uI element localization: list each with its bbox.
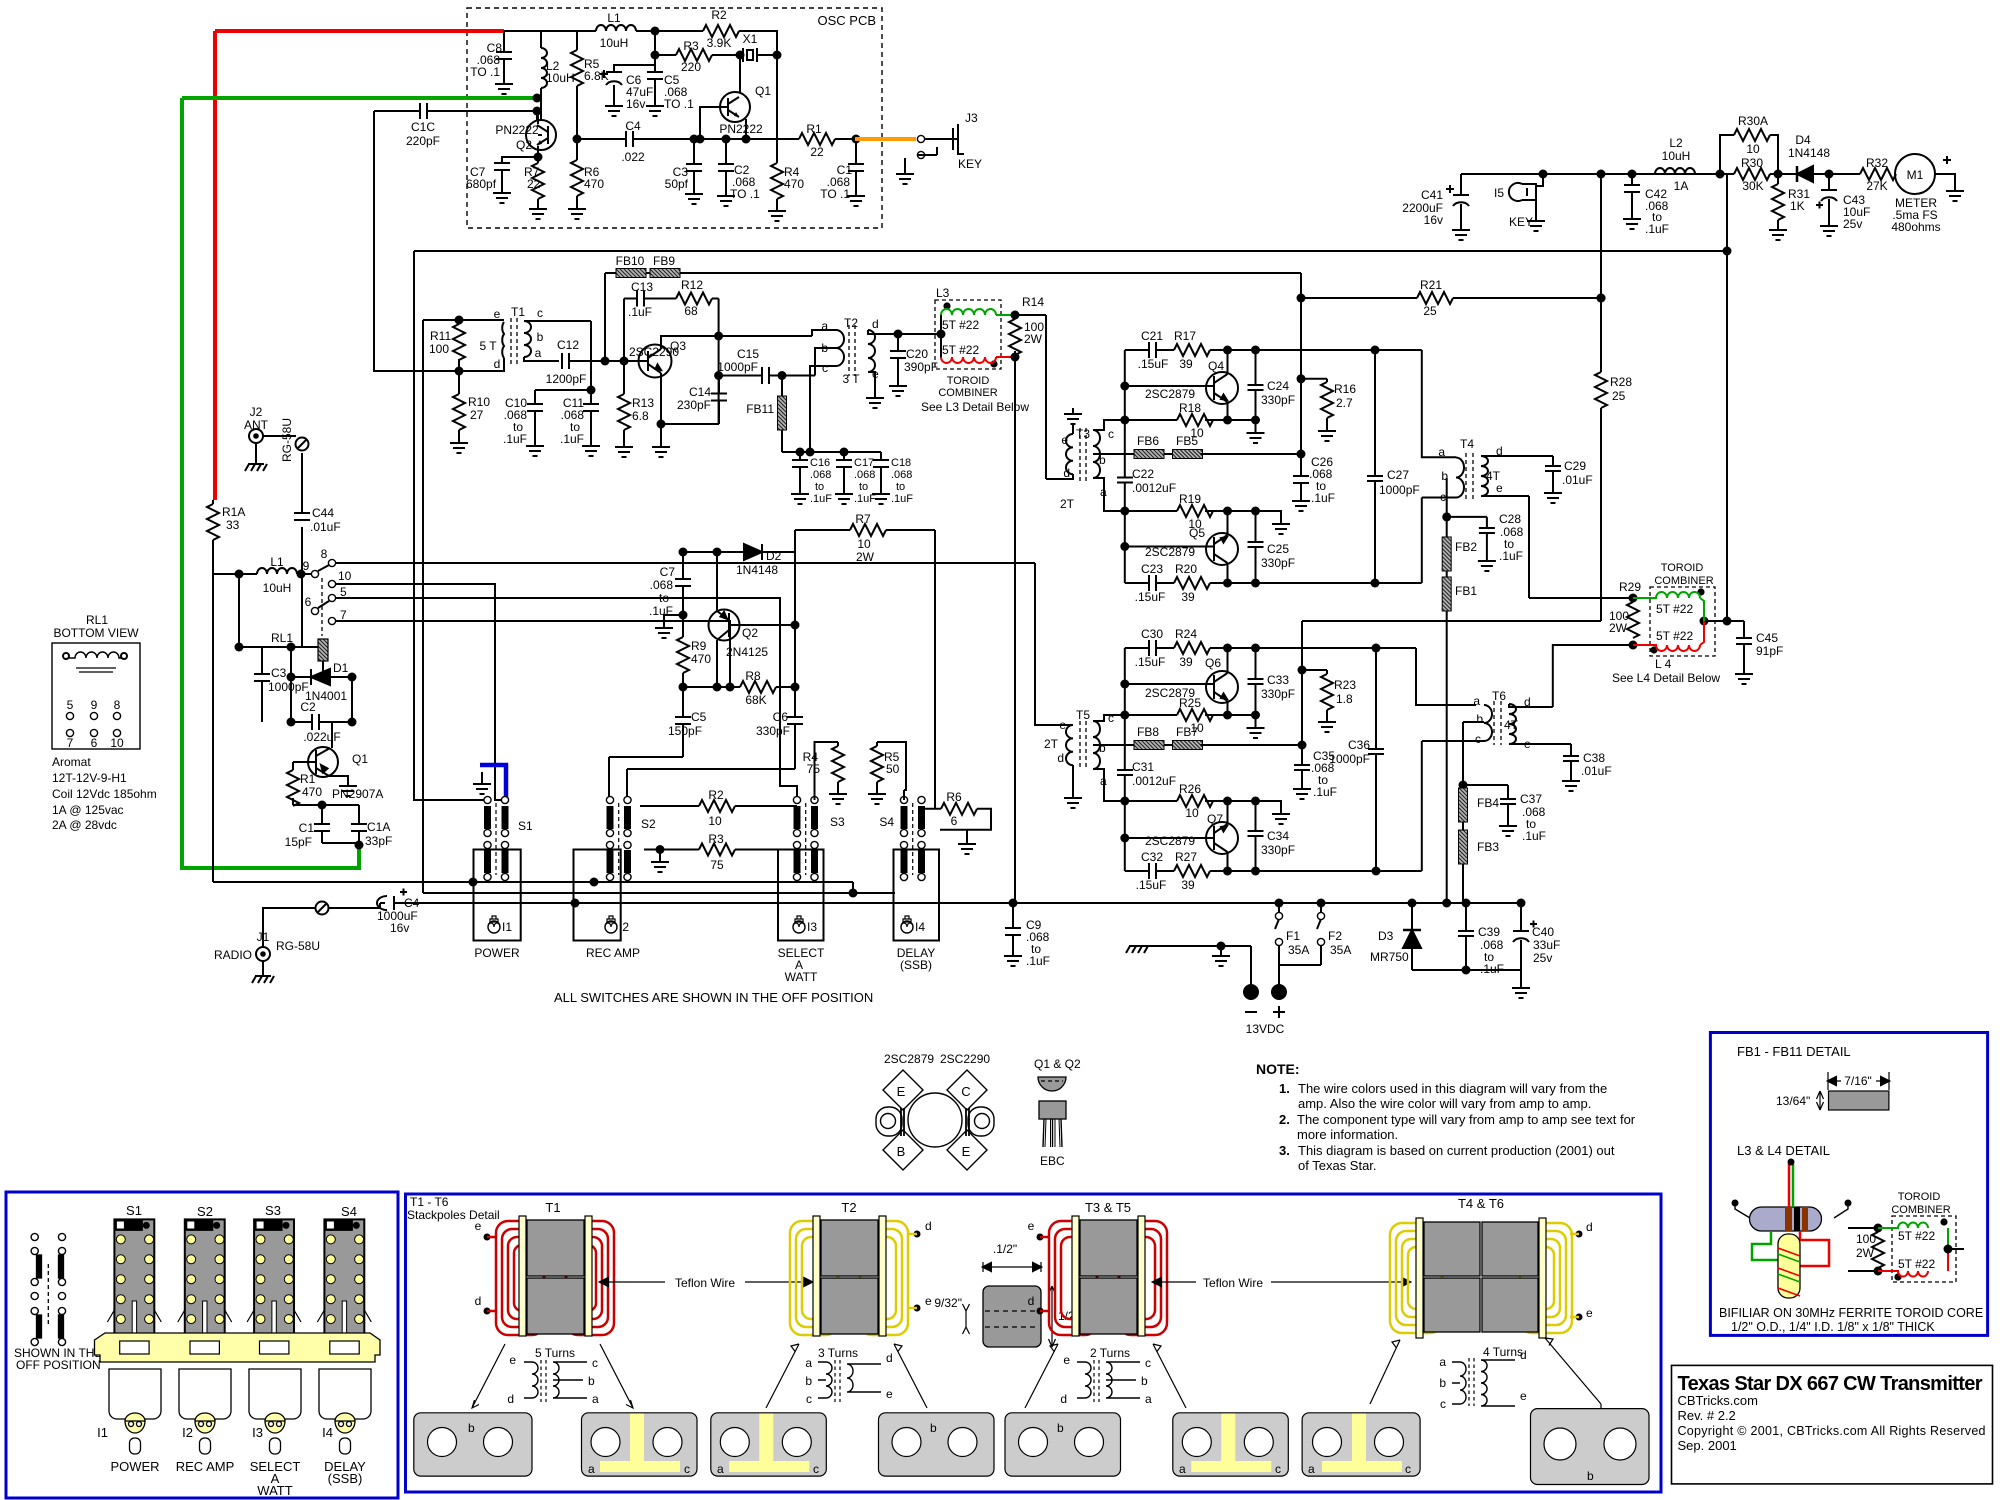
svg-text:R32: R32 xyxy=(1866,156,1888,170)
wire pin 7 line xyxy=(336,621,730,687)
svg-text:C4: C4 xyxy=(404,896,420,910)
svg-text:C24: C24 xyxy=(1267,379,1289,393)
svg-text:WATT: WATT xyxy=(257,1483,292,1498)
svg-text:470: 470 xyxy=(784,177,804,191)
svg-text:150pF: 150pF xyxy=(668,724,702,738)
svg-text:2A @ 28vdc: 2A @ 28vdc xyxy=(52,818,117,832)
svg-text:5: 5 xyxy=(67,698,74,712)
svg-text:R20: R20 xyxy=(1175,562,1197,576)
svg-text:REC AMP: REC AMP xyxy=(176,1459,235,1474)
capacitor C7 xyxy=(502,157,538,187)
svg-text:5 T: 5 T xyxy=(479,339,497,353)
svg-text:10: 10 xyxy=(338,569,352,583)
svg-text:See L3 Detail Below: See L3 Detail Below xyxy=(921,400,1029,414)
svg-text:FB11: FB11 xyxy=(746,402,774,416)
svg-text:R1: R1 xyxy=(300,772,316,786)
svg-text:e: e xyxy=(1059,718,1066,732)
wire top rail y=31 xyxy=(504,30,778,32)
blue enclosure switches detail xyxy=(6,1192,398,1498)
svg-text:c: c xyxy=(592,1356,598,1370)
svg-text:1000pF: 1000pF xyxy=(717,360,758,374)
svg-text:b: b xyxy=(468,1421,475,1435)
svg-text:REC AMP: REC AMP xyxy=(586,946,640,960)
svg-text:7: 7 xyxy=(67,736,74,750)
svg-text:.15uF: .15uF xyxy=(1135,590,1166,604)
capacitor C3 xyxy=(261,647,263,722)
meter M1 xyxy=(1895,154,1935,194)
resistor R2 xyxy=(640,805,797,807)
resistor R32 xyxy=(1860,168,1896,180)
svg-text:C22: C22 xyxy=(1132,467,1154,481)
wire blue jumper at S1 xyxy=(480,765,506,798)
svg-text:27K: 27K xyxy=(1866,179,1887,193)
svg-text:D3: D3 xyxy=(1378,929,1394,943)
solder lug plate 4 (b) xyxy=(879,1413,995,1476)
wire red supply into OSC xyxy=(215,31,504,500)
transformer T1 xyxy=(459,320,504,371)
ferrite beads FB6 FB5 xyxy=(1134,450,1164,459)
wire D2/C7 row y=552 xyxy=(683,530,795,552)
transformer T5 xyxy=(1035,725,1073,792)
svg-text:L2: L2 xyxy=(1669,136,1683,150)
capacitor C43 xyxy=(1816,174,1829,220)
svg-text:E: E xyxy=(962,1144,971,1159)
fuse F2 xyxy=(1317,903,1321,965)
svg-text:c: c xyxy=(1405,1462,1411,1476)
ferrite beads FB4 FB3 column xyxy=(1459,781,1468,790)
resistor R3 xyxy=(644,849,797,851)
svg-text:.1uF: .1uF xyxy=(1311,491,1335,505)
transistor Q1 PN2907A xyxy=(308,747,338,777)
wire pin 10 line to S1 xyxy=(336,584,505,800)
capacitor C37 xyxy=(1463,785,1508,820)
svg-text:FB10: FB10 xyxy=(616,254,645,268)
svg-text:R11: R11 xyxy=(430,329,451,343)
svg-text:22: 22 xyxy=(810,145,824,159)
svg-text:T3: T3 xyxy=(1076,427,1090,441)
svg-text:C25: C25 xyxy=(1267,542,1289,556)
yellow toroid core xyxy=(1778,1234,1800,1298)
vertical relay node feed xyxy=(290,647,292,722)
capacitor C32 + resistor R27 row xyxy=(1125,870,1422,872)
resistor R14 xyxy=(1011,311,1020,320)
svg-text:50pf: 50pf xyxy=(665,177,689,191)
svg-text:7: 7 xyxy=(340,608,347,622)
svg-text:C41: C41 xyxy=(1421,188,1443,202)
svg-text:WATT: WATT xyxy=(785,970,818,984)
svg-text:T4: T4 xyxy=(1460,437,1474,451)
svg-text:680pf: 680pf xyxy=(466,177,497,191)
svg-text:.0012uF: .0012uF xyxy=(1132,481,1176,495)
relay contact pins xyxy=(311,570,318,577)
switch S4 xyxy=(879,796,925,880)
resistor R4 xyxy=(815,742,839,800)
svg-text:.068: .068 xyxy=(854,469,875,481)
svg-text:M1: M1 xyxy=(1907,168,1924,182)
capacitor C2 xyxy=(291,721,352,723)
svg-text:L1: L1 xyxy=(270,555,284,569)
transistor Q4 2SC2879 xyxy=(1206,372,1238,404)
switch S3 body xyxy=(247,1219,301,1341)
svg-text:C: C xyxy=(961,1084,970,1099)
svg-text:Q1 & Q2: Q1 & Q2 xyxy=(1034,1057,1081,1071)
SECTION_BOXFB xyxy=(1710,1033,1987,1336)
svg-text:R6: R6 xyxy=(946,790,962,804)
svg-text:R21: R21 xyxy=(1420,278,1442,292)
svg-text:C6: C6 xyxy=(773,710,789,724)
svg-text:25v: 25v xyxy=(1533,951,1552,965)
blue enclosure transformers detail xyxy=(406,1194,1662,1492)
svg-text:2W: 2W xyxy=(856,550,875,564)
svg-text:e: e xyxy=(1061,433,1068,447)
svg-text:FB1 - FB11 DETAIL: FB1 - FB11 DETAIL xyxy=(1737,1044,1851,1059)
svg-text:I1: I1 xyxy=(97,1425,108,1440)
relay coil symbol inset xyxy=(63,653,69,659)
svg-text:1200pF: 1200pF xyxy=(546,372,587,386)
svg-text:.1/2": .1/2" xyxy=(993,1242,1017,1256)
transformer T4 xyxy=(1456,458,1464,498)
crystal X1 xyxy=(743,48,757,62)
svg-text:COMBINER: COMBINER xyxy=(1891,1204,1950,1216)
svg-text:Stackpoles Detail: Stackpoles Detail xyxy=(407,1208,500,1222)
svg-text:ALL SWITCHES ARE SHOWN IN THE: ALL SWITCHES ARE SHOWN IN THE OFF POSITI… xyxy=(554,990,873,1005)
wire row350 to C24/C27 xyxy=(1228,350,1457,457)
switch S2 xyxy=(606,796,656,880)
capacitor C1A xyxy=(358,805,360,845)
resistor R7 xyxy=(795,530,935,809)
red winding loop xyxy=(1800,1231,1829,1266)
svg-text:R25: R25 xyxy=(1179,696,1201,710)
svg-text:R26: R26 xyxy=(1179,782,1201,796)
svg-text:35A: 35A xyxy=(1330,943,1351,957)
capacitor C29 xyxy=(1552,456,1554,487)
svg-text:4 Turns: 4 Turns xyxy=(1483,1345,1523,1359)
transistor Q5 2SC2879 xyxy=(1206,533,1238,565)
svg-text:.1uF: .1uF xyxy=(1026,954,1050,968)
svg-text:R30A: R30A xyxy=(1738,114,1768,128)
connector J2 ANT xyxy=(249,429,263,443)
svg-text:68K: 68K xyxy=(745,693,766,707)
svg-text:D2: D2 xyxy=(766,549,782,563)
svg-text:C33: C33 xyxy=(1267,673,1289,687)
svg-text:e: e xyxy=(509,1353,516,1367)
svg-text:330pF: 330pF xyxy=(1261,843,1295,857)
svg-text:100: 100 xyxy=(429,342,449,356)
transistor Q2 2N4125 xyxy=(709,610,740,641)
svg-text:c: c xyxy=(1108,427,1114,441)
svg-text:C7: C7 xyxy=(660,565,676,579)
svg-text:C45: C45 xyxy=(1756,631,1778,645)
svg-text:more information.: more information. xyxy=(1297,1127,1398,1142)
svg-text:220pF: 220pF xyxy=(406,134,440,148)
svg-text:c: c xyxy=(1275,1462,1281,1476)
resistor R9 xyxy=(682,615,684,687)
svg-text:C44: C44 xyxy=(312,506,334,520)
svg-text:8: 8 xyxy=(114,698,121,712)
svg-text:Teflon Wire: Teflon Wire xyxy=(1203,1276,1263,1290)
svg-text:F1: F1 xyxy=(1286,929,1300,943)
svg-text:330pF: 330pF xyxy=(1261,393,1295,407)
green winding loop xyxy=(1752,1231,1778,1260)
svg-text:PN2907A: PN2907A xyxy=(332,787,383,801)
wire vertical feeds xyxy=(213,574,239,882)
svg-text:3 Turns: 3 Turns xyxy=(818,1346,858,1360)
svg-text:390pF: 390pF xyxy=(904,360,938,374)
svg-text:91pF: 91pF xyxy=(1756,644,1783,658)
resistor R1A xyxy=(212,500,214,574)
switch S1 body xyxy=(107,1203,161,1341)
svg-text:16v: 16v xyxy=(390,921,409,935)
SECTION_BOXTR xyxy=(406,1194,1662,1492)
svg-text:KEY: KEY xyxy=(1509,215,1533,229)
svg-text:R14: R14 xyxy=(1022,295,1044,309)
svg-text:C21: C21 xyxy=(1141,329,1163,343)
T4 winding diagram xyxy=(1452,1362,1466,1404)
SECTION_SWITCHES xyxy=(473,742,1050,1005)
svg-text:10: 10 xyxy=(1746,142,1760,156)
svg-text:c: c xyxy=(1440,490,1446,504)
capacitor C36 xyxy=(1375,648,1377,871)
svg-text:2SC2879: 2SC2879 xyxy=(1145,545,1195,559)
svg-text:Teflon Wire: Teflon Wire xyxy=(675,1276,735,1290)
switch S2 body xyxy=(178,1219,232,1341)
svg-text:39: 39 xyxy=(1179,655,1193,669)
svg-text:35A: 35A xyxy=(1288,943,1309,957)
svg-text:T2: T2 xyxy=(841,1200,856,1215)
svg-text:R19: R19 xyxy=(1179,492,1201,506)
svg-text:to: to xyxy=(659,591,669,605)
SECTION_NOTE xyxy=(1256,1061,1636,1173)
svg-text:FB3: FB3 xyxy=(1477,840,1499,854)
SECTION_RELAY xyxy=(52,405,1521,983)
svg-text:a: a xyxy=(1439,1355,1446,1369)
svg-text:PN2222: PN2222 xyxy=(495,123,539,137)
svg-text:b: b xyxy=(1587,1469,1594,1483)
lamp I5 KEY xyxy=(1536,174,1543,215)
resistor R30A (bypass loop) xyxy=(1720,135,1778,174)
OSC PCB dashed enclosure xyxy=(467,8,882,228)
resistor R7 xyxy=(537,157,539,203)
svg-text:C15: C15 xyxy=(737,347,759,361)
svg-text:I5: I5 xyxy=(1494,186,1504,200)
svg-text:to: to xyxy=(859,481,868,493)
inductor L2 xyxy=(1655,168,1695,174)
svg-text:33uF: 33uF xyxy=(1533,938,1560,952)
svg-text:2W: 2W xyxy=(1024,332,1043,346)
svg-text:.022: .022 xyxy=(621,150,645,164)
supply rail junction dots xyxy=(1275,899,1284,908)
svg-text:1A: 1A xyxy=(1674,179,1689,193)
svg-text:R8: R8 xyxy=(745,669,761,683)
SECTION_BOXSW xyxy=(6,1192,398,1498)
svg-text:a: a xyxy=(1438,445,1445,459)
connector J3 KEY jack xyxy=(917,135,924,142)
svg-text:D1: D1 xyxy=(333,661,349,675)
svg-text:This diagram is based on curre: This diagram is based on current product… xyxy=(1298,1143,1615,1158)
svg-text:.0012uF: .0012uF xyxy=(1132,774,1176,788)
svg-text:amp. Also the wire color will: amp. Also the wire color will vary from … xyxy=(1298,1096,1591,1111)
capacitor C4 1000uF polarized xyxy=(380,902,1521,904)
lamps I1-I4 xyxy=(125,1413,355,1454)
svg-text:POWER: POWER xyxy=(474,946,520,960)
svg-text:C1C: C1C xyxy=(411,120,435,134)
svg-text:S3: S3 xyxy=(265,1203,281,1218)
diode D2 1N4148 xyxy=(761,544,763,560)
svg-text:2T: 2T xyxy=(1044,737,1059,751)
svg-text:a: a xyxy=(592,1392,599,1406)
capacitor C28 xyxy=(1447,517,1487,555)
lamp I4 assembly xyxy=(894,850,940,941)
capacitor C14 xyxy=(718,376,720,425)
svg-text:R3: R3 xyxy=(683,39,699,53)
capacitor C42 xyxy=(1631,174,1633,213)
svg-text:FB9: FB9 xyxy=(653,254,675,268)
svg-text:C5: C5 xyxy=(691,710,707,724)
switch S1 xyxy=(484,796,533,880)
capacitor C17 xyxy=(843,452,845,488)
svg-text:5T #22: 5T #22 xyxy=(1656,629,1693,643)
svg-text:25: 25 xyxy=(1612,389,1626,403)
diode D4 1N4148 xyxy=(1796,166,1799,182)
node base row xyxy=(601,357,610,366)
svg-text:C40: C40 xyxy=(1532,925,1554,939)
diode D1 1N4001 xyxy=(291,669,352,685)
svg-text:b: b xyxy=(537,330,544,344)
wire D2 column xyxy=(794,552,796,687)
svg-text:TOROID: TOROID xyxy=(947,375,990,387)
svg-text:RG-58U: RG-58U xyxy=(276,939,320,953)
svg-text:R1A: R1A xyxy=(222,505,245,519)
svg-text:9: 9 xyxy=(91,698,98,712)
capacitor C15 xyxy=(719,348,836,376)
svg-text:.1uF: .1uF xyxy=(628,305,652,319)
svg-text:e: e xyxy=(494,307,501,321)
solder lug plate 2 (a,c yellow) xyxy=(582,1413,698,1476)
transistor Q7 2SC2879 xyxy=(1206,822,1238,854)
svg-text:ANT: ANT xyxy=(244,418,269,432)
yellow mounting bracket xyxy=(95,1333,381,1362)
svg-text:I1: I1 xyxy=(502,920,512,934)
svg-text:C13: C13 xyxy=(631,280,653,294)
svg-text:RG-58U: RG-58U xyxy=(280,418,294,462)
capacitor C3 xyxy=(690,135,699,144)
svg-text:to: to xyxy=(815,481,824,493)
T2 winding diagram xyxy=(818,1362,832,1398)
svg-text:T3 & T5: T3 & T5 xyxy=(1085,1200,1131,1215)
capacitor C40 polarized xyxy=(1520,903,1522,970)
capacitor C1 xyxy=(852,135,861,144)
svg-text:C4: C4 xyxy=(625,119,641,133)
svg-text:.01uF: .01uF xyxy=(310,520,341,534)
capacitor C13 xyxy=(624,299,676,362)
svg-text:a: a xyxy=(821,319,828,333)
svg-text:c: c xyxy=(684,1462,690,1476)
svg-text:TO .1: TO .1 xyxy=(730,187,760,201)
inductor L1 xyxy=(213,573,311,575)
svg-text:2SC2879: 2SC2879 xyxy=(884,1052,934,1066)
svg-text:10uH: 10uH xyxy=(263,581,292,595)
svg-text:30K: 30K xyxy=(1742,179,1763,193)
wire C44 column from J2 xyxy=(301,453,303,647)
svg-text:J2: J2 xyxy=(250,405,263,419)
svg-text:C38: C38 xyxy=(1583,751,1605,765)
svg-text:10: 10 xyxy=(1185,806,1199,820)
svg-text:R23: R23 xyxy=(1334,678,1356,692)
transistor Q1 PN2222 xyxy=(720,92,750,122)
svg-text:T6: T6 xyxy=(1492,689,1506,703)
capacitor C5 xyxy=(609,687,683,800)
resistor R26 row xyxy=(1125,801,1281,808)
svg-text:2T: 2T xyxy=(1060,497,1075,511)
lower supply return rail xyxy=(1412,970,1521,982)
svg-text:c: c xyxy=(1108,711,1114,725)
node row under Q1 xyxy=(293,804,359,806)
svg-text:R27: R27 xyxy=(1175,850,1197,864)
svg-text:C31: C31 xyxy=(1132,760,1154,774)
capacitor C6 xyxy=(627,687,795,800)
transistor Q2 PN2222 xyxy=(526,120,556,150)
svg-text:6.8: 6.8 xyxy=(632,409,649,423)
coil L4 red xyxy=(1633,621,1704,651)
svg-text:I2: I2 xyxy=(182,1425,193,1440)
svg-text:d: d xyxy=(925,1219,932,1233)
svg-text:c: c xyxy=(1475,732,1481,746)
Q3 emitter ground + C14 row xyxy=(657,420,666,429)
svg-text:Coil 12Vdc 185ohm: Coil 12Vdc 185ohm xyxy=(52,787,157,801)
svg-text:RADIO: RADIO xyxy=(214,948,252,962)
capacitor C44 xyxy=(294,513,310,520)
svg-text:c: c xyxy=(1440,1397,1446,1411)
resistor R5 xyxy=(576,31,578,139)
wire vertical bus x=1601 with R28 xyxy=(1600,174,1602,621)
resistor R5 xyxy=(877,742,906,800)
wire x=1302 lower vertical + output row 621 xyxy=(1302,621,1744,745)
svg-text:C14: C14 xyxy=(689,385,711,399)
capacitor C5 xyxy=(654,65,656,100)
resistor R28 xyxy=(1595,372,1607,408)
left contact diagram xyxy=(31,1233,66,1345)
coil L3 red xyxy=(941,357,1015,363)
svg-text:S3: S3 xyxy=(830,815,845,829)
resistor R6 xyxy=(576,139,578,203)
diode D3 MR750 xyxy=(1411,903,1413,970)
svg-text:d: d xyxy=(494,357,501,371)
wire c feedback drop to C10/C11 row xyxy=(535,321,591,390)
wire Q4 cell left bracket xyxy=(1124,350,1126,583)
wire L3 output to T3/T5 feed xyxy=(1015,315,1071,479)
svg-text:I3: I3 xyxy=(807,920,817,934)
SECTION_DRIVER xyxy=(414,247,1732,904)
svg-text:R16: R16 xyxy=(1334,382,1356,396)
svg-text:10: 10 xyxy=(857,537,871,551)
resistor R4 xyxy=(771,163,783,199)
svg-text:TO .1: TO .1 xyxy=(820,187,850,201)
svg-text:c: c xyxy=(1145,1356,1151,1370)
transformer T6 xyxy=(1484,705,1492,741)
svg-text:FB8: FB8 xyxy=(1137,725,1159,739)
capacitor C9 xyxy=(1012,903,1014,950)
svg-text:1/2" O.D., 1/4" I.D. 1/8" x 1/: 1/2" O.D., 1/4" I.D. 1/8" x 1/8" THICK xyxy=(1731,1320,1935,1334)
wire red node long drop to supply rail xyxy=(1014,357,1016,903)
svg-text:F2: F2 xyxy=(1328,929,1342,943)
capacitor C18 xyxy=(880,452,882,488)
resistor R19 row xyxy=(1125,511,1281,518)
svg-text:.068: .068 xyxy=(891,469,912,481)
svg-text:T5: T5 xyxy=(1076,708,1090,722)
svg-text:.15uF: .15uF xyxy=(1138,357,1169,371)
svg-text:.1uF: .1uF xyxy=(891,493,913,505)
svg-text:.15uF: .15uF xyxy=(1136,878,1167,892)
